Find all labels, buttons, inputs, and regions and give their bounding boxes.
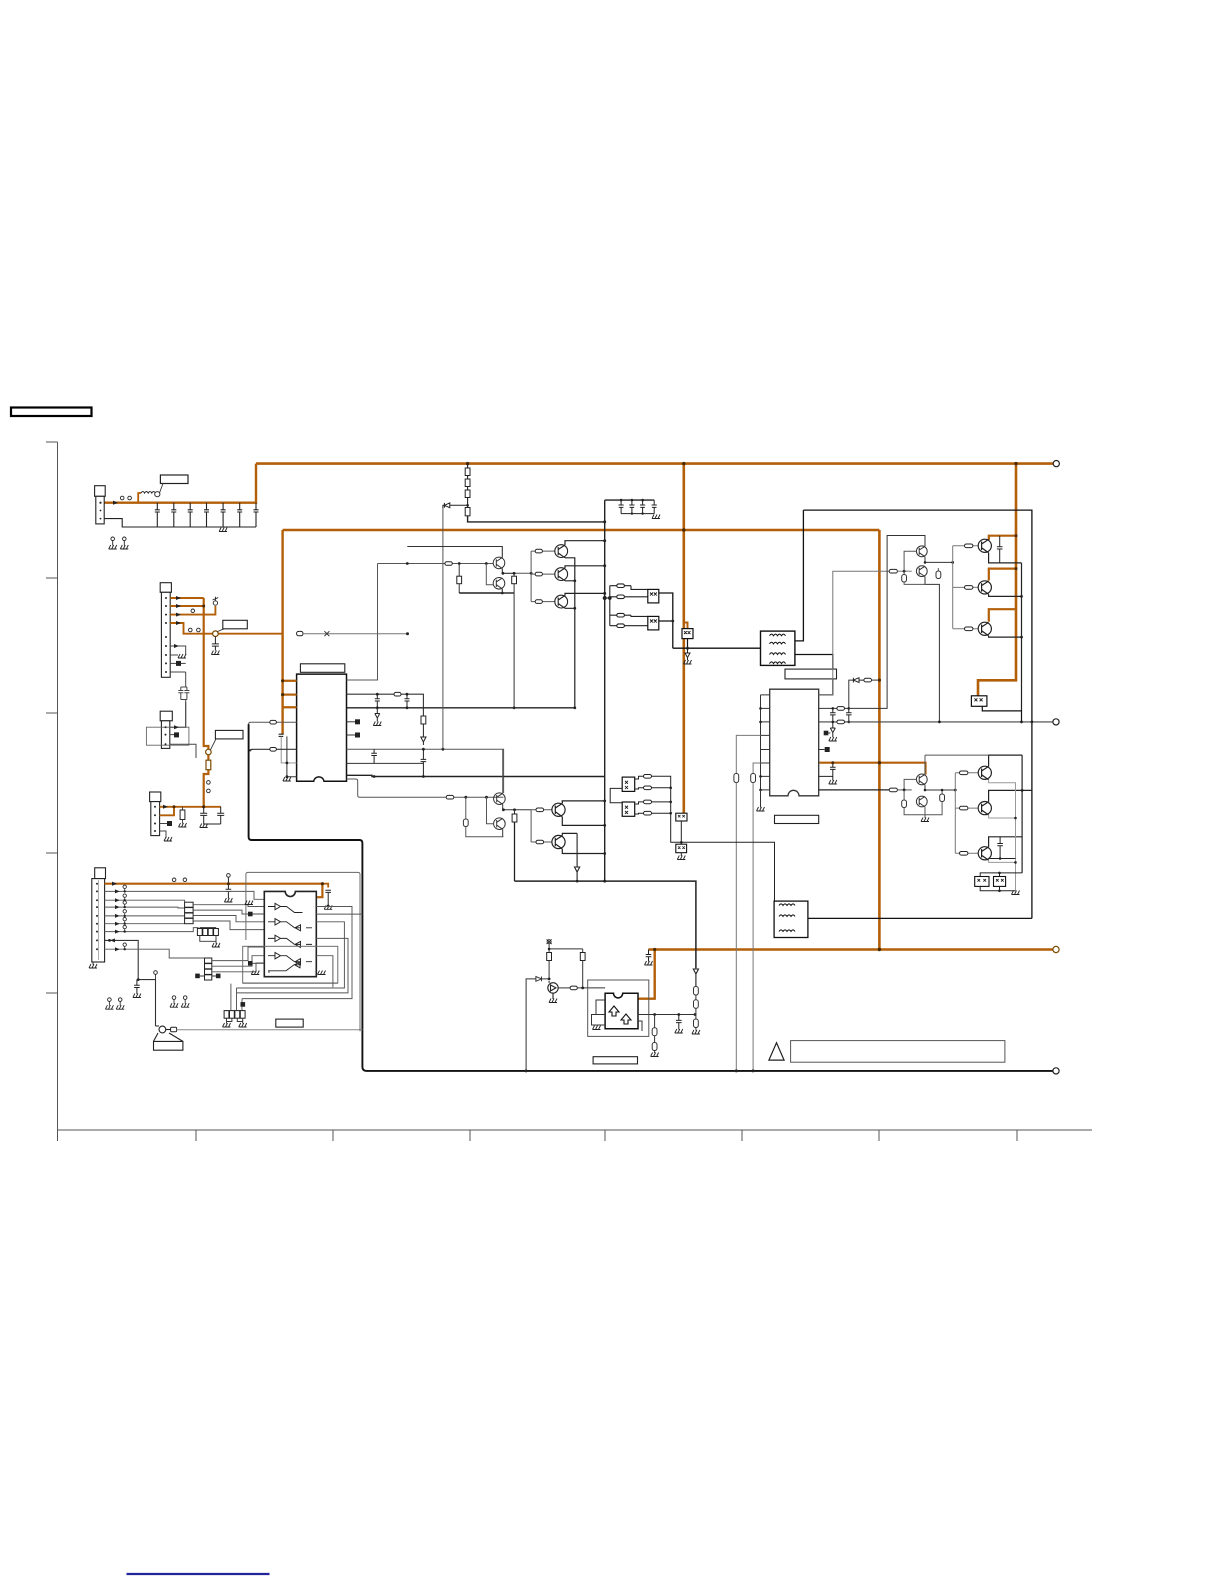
- label box regulator: [593, 1057, 637, 1064]
- resistor oval r3: [610, 615, 648, 616]
- wire T1 right lower to IC2: [795, 655, 833, 695]
- wire PC4 out: [982, 706, 1021, 722]
- resistor oval: [446, 795, 454, 799]
- capacitor: [421, 749, 427, 776]
- wire orange column bus: [204, 598, 209, 807]
- arrow up 2: [621, 1014, 631, 1024]
- base divider resistor: [458, 564, 460, 577]
- wire row3 out: [237, 938, 349, 993]
- wire left orange drop to IC1: [281, 530, 283, 734]
- wire QO5 emitter: [989, 815, 1016, 818]
- resistor to gnd: [182, 807, 184, 810]
- resistor oval r1: [610, 585, 631, 587]
- wire collector feed Q mid: [989, 569, 1016, 581]
- node resistor: [514, 810, 516, 814]
- fusible link circle: [213, 631, 219, 637]
- wire pin fb: [819, 680, 854, 708]
- ruler tick: [469, 1130, 471, 1141]
- capacitor to gnd: [200, 807, 221, 824]
- wire base link up: [904, 779, 916, 790]
- base link to Q2: [485, 562, 488, 565]
- series caps pair: [178, 672, 189, 727]
- left bus PC5/PC6: [610, 788, 622, 802]
- wire sig3: [105, 906, 185, 909]
- buffer row 2: [268, 919, 312, 931]
- junction orange cross: [1014, 462, 1017, 465]
- IC3 right exits: [231, 907, 363, 1011]
- wire sig5: [105, 923, 185, 925]
- ground: [283, 777, 291, 781]
- wire standby rail (orange): [105, 884, 323, 898]
- zener below: [685, 648, 690, 660]
- wire soft-start net: [347, 694, 424, 716]
- wire bottom orange rail: [649, 948, 1057, 950]
- wire PC3 to bus: [687, 639, 689, 649]
- wire CN2 p3: [170, 606, 215, 615]
- wire reg internal left: [592, 1000, 606, 1025]
- wire IC2 gnd drop: [760, 790, 762, 808]
- thermostat: [154, 1026, 183, 1050]
- resistor oval r2: [610, 596, 648, 598]
- tp circle on orange bus: [206, 749, 212, 755]
- ruler tick: [46, 712, 58, 714]
- wire QO4 emitter rail: [989, 780, 1016, 891]
- bead CN4: [167, 821, 172, 826]
- capacitor x4: [619, 500, 657, 513]
- base bus lower trio: [954, 773, 956, 854]
- wire p9: [170, 671, 186, 673]
- pad stubs: [347, 721, 356, 723]
- junction bottom rail: [878, 948, 881, 951]
- bottom ruler line: [58, 1129, 1093, 1131]
- wire tp down: [548, 944, 550, 953]
- emitter resistor: [903, 571, 905, 574]
- ruler tick: [46, 577, 58, 579]
- diode vertical: [421, 724, 426, 745]
- left resistor: [903, 790, 905, 800]
- wire CN3 p3: [170, 744, 196, 758]
- CN2 lower black pins: [170, 646, 189, 727]
- diode block DB2: [676, 844, 687, 853]
- transistor QP1 (pnp): [916, 546, 927, 557]
- junction IC2 vcc at drop: [878, 761, 881, 764]
- wire center orange drop: [682, 464, 685, 814]
- wire QO5 collector: [989, 790, 1032, 801]
- wire QD pair node: [503, 804, 531, 810]
- tp circles on standby rail: [172, 878, 176, 882]
- bead p8: [176, 661, 181, 666]
- cap bank top bus: [605, 499, 655, 501]
- shield box CN3: [146, 727, 189, 745]
- wire sig4: [105, 915, 185, 917]
- ruler tick: [878, 1130, 880, 1141]
- resistor chain on +B: [467, 464, 469, 468]
- ruler tick: [46, 441, 58, 443]
- terminal post top: [1053, 461, 1059, 467]
- ruler tick: [46, 852, 58, 854]
- no-connect X: [324, 631, 329, 636]
- capacitor below vcc pin: [819, 763, 836, 777]
- wire QO1 emitter: [989, 553, 1022, 563]
- divider resistor: [465, 797, 467, 819]
- resistor: [547, 953, 552, 961]
- transistor QO6: [978, 847, 991, 861]
- tp circle on p2: [191, 609, 195, 613]
- IC2 label box: [785, 669, 837, 679]
- pin dots CN3: [165, 726, 167, 745]
- heavy return path: [249, 724, 1056, 1071]
- note box: [791, 1041, 1005, 1063]
- wire riser from input connector: [99, 464, 256, 503]
- wire cap to IC pin: [281, 736, 296, 763]
- emitter bus: [459, 592, 514, 594]
- decoupling cap at orange bus end: [279, 734, 284, 736]
- wire sig6: [105, 928, 199, 932]
- right bus lower group: [652, 776, 775, 901]
- ground rail lower: [515, 881, 696, 968]
- wire QO4 collector: [989, 755, 1023, 766]
- wire QP pair output: [925, 557, 953, 563]
- tp circles on bus: [207, 781, 211, 785]
- transistor QP4: [916, 796, 927, 807]
- opto-coupler PC2: [648, 616, 659, 630]
- junction: [202, 805, 205, 808]
- transistor QM2: [552, 835, 565, 849]
- ruler tick: [57, 1130, 59, 1141]
- wire IC1 vref: [347, 749, 504, 793]
- wire after tp circle: [218, 633, 283, 635]
- wire trio emitter bus: [565, 558, 575, 708]
- right resistor chain: [693, 968, 698, 987]
- resistor pack RP2: [227, 1010, 243, 1012]
- shunt reference (circle w/ triangle): [548, 981, 558, 999]
- wire sig1: [105, 891, 265, 899]
- bead: [171, 1027, 177, 1031]
- snubber cap QO6: [997, 837, 1003, 859]
- capacitor branch: [676, 1015, 682, 1030]
- left ruler line: [57, 442, 59, 1130]
- transistor Q3: [555, 545, 568, 558]
- resistor oval pin749: [270, 748, 277, 752]
- wire IC1 pin feedback: [249, 722, 297, 747]
- title block box top-left: [11, 408, 92, 417]
- junction on +B rail: [466, 462, 469, 465]
- tp circle: [154, 971, 158, 975]
- wire IC1 supply pin 1: [283, 680, 298, 682]
- capacitor: [375, 694, 380, 708]
- opto-coupler PC6: [622, 802, 635, 816]
- wire p6: [170, 646, 186, 655]
- capacitor: [325, 890, 331, 906]
- base link to QD2: [485, 796, 488, 799]
- wire row1 out: [242, 907, 352, 999]
- wire reg right pins: [638, 1015, 695, 1032]
- pin stubs: [761, 695, 770, 790]
- wire: [442, 508, 444, 749]
- op-amp IC1 body: [297, 674, 347, 781]
- resistor vertical: [421, 716, 426, 724]
- wire IC1 gnd bus: [347, 707, 575, 709]
- wire IC1 pin comp: [250, 749, 296, 751]
- wire CN1 ground return: [104, 519, 256, 527]
- wire CN4 p1: [160, 806, 221, 808]
- wire CN3 p2: [170, 734, 174, 736]
- label box IC2 sub: [775, 815, 819, 823]
- resistor right branch: [582, 949, 584, 953]
- zener + gnd: [828, 722, 835, 737]
- resistor below: [654, 1015, 656, 1028]
- terminal post gnd: [1053, 1068, 1059, 1074]
- capacitor on pin fb: [830, 708, 836, 722]
- transistor Q2: [493, 578, 505, 590]
- wire: [604, 522, 606, 881]
- IC3 internal gnd stubs: [268, 971, 270, 973]
- wire IC1 supply pin 2: [283, 694, 298, 696]
- resistor oval: [445, 562, 452, 566]
- base resistor ovals: [531, 550, 555, 552]
- pin dots CN1: [99, 502, 101, 504]
- wire from connector net: [105, 940, 156, 1026]
- wire collector feed Q bot: [989, 609, 1016, 622]
- wire dropper 1 down: [735, 783, 737, 1071]
- wire collector feed Q top: [989, 536, 1016, 540]
- CN5 pin dots: [96, 883, 98, 951]
- transistor Q4: [555, 568, 568, 581]
- hybrid IC body: [605, 993, 638, 1029]
- wire IC1 bottom net: [347, 775, 605, 776]
- wire QM2 collector: [562, 833, 577, 835]
- wire CN3 p1: [170, 702, 186, 727]
- resistor oval base feed: [889, 569, 897, 573]
- resistor on orange bus: [206, 760, 211, 770]
- opto-coupler PC5: [622, 777, 635, 791]
- node resistor: [941, 790, 943, 794]
- opto-coupler PC3: [682, 629, 693, 639]
- diode feed to resistor chain: [443, 503, 468, 508]
- ground: [211, 651, 219, 655]
- arrow on +B wire: [113, 501, 118, 505]
- node resistor: [937, 568, 939, 571]
- orange spur to cap: [322, 884, 328, 888]
- wire PC5 pins to resistors: [635, 776, 644, 789]
- wire node to output trio bases: [514, 572, 531, 574]
- ruler tick: [1016, 1130, 1018, 1141]
- wire row2 out: [237, 922, 345, 988]
- wire sense line: [819, 571, 895, 695]
- diode pack D2: [994, 877, 1006, 887]
- capacitor under link: [212, 637, 219, 651]
- test point: [128, 496, 132, 500]
- wire top link: [549, 948, 583, 950]
- connector CN5: [95, 868, 106, 879]
- wire dropper 2 down: [752, 783, 754, 1071]
- test pads with grounds: [111, 537, 115, 546]
- wire Q2 emitter: [502, 589, 514, 593]
- resistor array RA1: [185, 902, 194, 924]
- wire under-pass returns: [231, 983, 338, 1010]
- node resistor: [513, 573, 515, 576]
- wire CN4 p2: [160, 807, 174, 816]
- antenna symbol p3: [213, 597, 219, 605]
- IC3 internal buffers: [268, 903, 312, 971]
- signal wires from CN5: [105, 891, 265, 958]
- wire right orange drop: [978, 464, 1016, 697]
- junction orange Q feeds: [1015, 534, 1018, 537]
- connector CN2: [160, 583, 171, 593]
- capacitor: [405, 694, 410, 708]
- tp circles column: [123, 885, 126, 950]
- arrow up 1: [609, 1006, 619, 1016]
- windings: [770, 634, 786, 636]
- wire drive out lower: [819, 789, 895, 791]
- wire IC1 supply pin 3: [283, 706, 298, 708]
- shield gnd pad left: [245, 901, 253, 905]
- wire row mid to rail: [316, 913, 362, 915]
- resistor ovals lower group: [644, 775, 652, 779]
- warning triangle: [769, 1043, 784, 1060]
- base risers second stage: [531, 810, 552, 842]
- terminal post: [1053, 719, 1059, 725]
- junction second rail: [682, 528, 685, 531]
- IC2 left pin bus: [760, 695, 762, 790]
- label box: [218, 629, 225, 632]
- link terminal circle: [155, 492, 160, 497]
- transistor QO3: [978, 622, 991, 636]
- wire output sense to terminal: [819, 721, 1053, 723]
- diode drop: [575, 833, 580, 881]
- wire QP3 collector up: [924, 755, 926, 774]
- wire CN2 p1: [170, 597, 204, 599]
- wire p7: [170, 654, 178, 656]
- pad stub: [819, 749, 825, 751]
- capacitor at orange rail left end: [646, 950, 652, 962]
- connector CN1: [95, 486, 106, 497]
- wire stub into opto center: [684, 623, 688, 629]
- wire into bus: [605, 597, 610, 599]
- capacitor 2: [217, 807, 224, 824]
- ground: [652, 515, 660, 519]
- wire Q4 collector: [565, 566, 605, 568]
- wires diode packs: [980, 873, 1022, 877]
- wire p8: [170, 662, 186, 664]
- wire regulator orange feed: [638, 950, 655, 999]
- resistor oval pin722: [270, 720, 277, 724]
- ruler tick: [195, 1130, 197, 1141]
- transistor QO4: [978, 766, 991, 780]
- wire row4 out: [316, 956, 333, 988]
- wire QD1 collector: [502, 749, 504, 793]
- diode block DB1: [676, 813, 687, 821]
- RA2 side pads: [195, 974, 200, 979]
- output oval: [558, 987, 570, 989]
- wire IC2 vcc pin: [819, 763, 925, 775]
- transistor QO2: [978, 581, 991, 594]
- wire pair output: [925, 785, 955, 790]
- wire opto outputs: [659, 593, 761, 648]
- wire PC6 pins to resistors: [635, 802, 644, 814]
- RA1 outputs: [193, 905, 264, 930]
- label box F1: [160, 484, 163, 493]
- left feed bus: [609, 586, 611, 626]
- wire CN2 p2: [170, 605, 204, 607]
- ground below cap bank: [219, 528, 227, 532]
- wire to driver area: [303, 633, 408, 635]
- IC1 label box: [300, 664, 344, 673]
- wire Q1 collector: [407, 547, 502, 558]
- wire base link up: [904, 551, 916, 571]
- wire IC1 drive out: [347, 779, 446, 797]
- cap bank bottom bus: [621, 513, 654, 515]
- arrow CN3 p1: [174, 725, 179, 729]
- wire QO4 collector to QP3: [925, 754, 989, 756]
- collector rail: [1021, 755, 1023, 873]
- wire T2 to rail: [808, 917, 1032, 919]
- junction dots orange bus: [281, 679, 284, 682]
- ruler tick: [741, 1130, 743, 1141]
- wire DB1-DB2: [680, 821, 682, 856]
- buffer row 1: [268, 903, 303, 912]
- wire QO3 emitter: [989, 636, 1022, 637]
- snubber cap QO1: [997, 536, 1003, 563]
- wire sig8: [105, 949, 205, 958]
- ruler tick: [332, 1130, 334, 1141]
- test point circles before link: [189, 628, 193, 632]
- op-amp IC2 body: [770, 689, 819, 796]
- spare gnd pads row: [108, 998, 112, 1006]
- transistor QM1: [552, 803, 565, 817]
- base ovals + stubs: [953, 545, 979, 547]
- diode pack D1: [975, 877, 989, 887]
- pin dots CN4: [154, 806, 156, 832]
- arrows CN2: [176, 596, 181, 600]
- wire Q1 emitter to node: [502, 569, 514, 574]
- wire IC1 osc: [347, 762, 424, 764]
- resistor vertical: [751, 774, 756, 783]
- wire pin to left dropper 2: [753, 763, 760, 774]
- wire base input: [378, 563, 494, 565]
- wire +B top rail: [256, 462, 1056, 465]
- wire QO6 collector: [989, 837, 1023, 847]
- label box shield: [276, 1019, 303, 1027]
- transistor QP3: [916, 774, 927, 785]
- opto-coupler PC1: [648, 589, 659, 603]
- resistor oval base feed: [889, 788, 897, 792]
- transistor QO1: [978, 539, 991, 553]
- RA2 outputs: [212, 947, 264, 972]
- ruler tick: [46, 992, 58, 994]
- test point: [120, 496, 124, 500]
- buffer row 5: [268, 962, 300, 971]
- ruler tick: [604, 1130, 606, 1141]
- resistor pack RP1: [200, 928, 216, 932]
- wire CN2 p4: [170, 623, 213, 634]
- base bus trio: [952, 546, 954, 629]
- diode: [853, 678, 864, 683]
- wire far-right orange drop: [878, 530, 881, 950]
- buffer IC3: [264, 891, 316, 976]
- connector CN3: [160, 711, 172, 721]
- junction orange cross: [682, 462, 685, 465]
- wire T1 right top to box rail: [795, 510, 804, 641]
- arrow CN4: [163, 805, 168, 809]
- junction dots on gnd bus: [735, 1069, 738, 1072]
- CN4 lower pins: [160, 824, 171, 839]
- buffer row 3: [268, 935, 312, 947]
- wire QP4 emitter gnd: [924, 807, 926, 818]
- wire sig2: [105, 900, 185, 902]
- capacitor: [371, 749, 377, 763]
- buffer row 4: [268, 953, 312, 965]
